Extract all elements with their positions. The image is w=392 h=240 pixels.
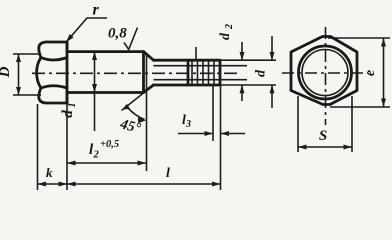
svg-text:S: S [319,128,327,144]
chamfer circle [299,46,352,99]
chamfer 45 deg at shank end [144,52,154,93]
hex head (side view) [37,42,67,103]
svg-text:d: d [218,32,233,40]
svg-text:D: D [0,66,13,78]
shank (smooth cylindrical part, dia d1) [67,42,144,103]
dimension D [0,54,41,95]
inner circle [302,50,348,96]
svg-text:+0,5: +0,5 [100,139,119,150]
thread root lines [154,66,221,80]
svg-text:l: l [166,166,170,181]
dimension d1 [60,52,97,131]
svg-text:k: k [46,165,53,180]
svg-text:2: 2 [224,24,235,30]
extension lines k / l left [38,104,68,190]
roughness mark 0,8 [108,26,138,50]
dimension d2 [218,24,247,101]
dimension k [38,165,68,187]
hexagon outline [291,37,357,105]
threaded end (dia d) [154,60,221,85]
angle 45 deg dimension [118,53,154,171]
leader r (head fillet) [66,2,107,43]
hex head end view: center lines [282,27,368,125]
svg-text:e: e [363,70,378,76]
thread start line [187,60,190,85]
svg-text:0,8: 0,8 [108,26,127,42]
svg-text:1: 1 [67,103,78,108]
svg-text:3: 3 [185,119,191,130]
svg-text:r: r [93,2,100,19]
dimension d [220,36,276,108]
dimension l2 +0,5 [67,139,146,166]
svg-text:2: 2 [93,150,100,161]
svg-text:d: d [254,69,269,77]
axis center line of bolt [32,72,238,74]
dimension l [67,86,221,190]
dimension e [328,38,390,107]
svg-text:d: d [60,110,76,118]
thread strokes [192,60,214,85]
dimension S [298,96,352,152]
stub extension above thread [195,47,197,60]
dimension l3 [178,86,245,141]
